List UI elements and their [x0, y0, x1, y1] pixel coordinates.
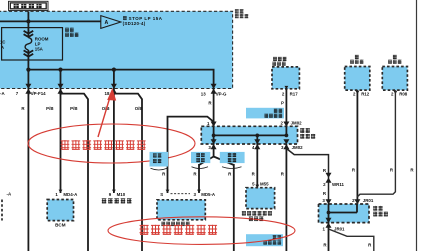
wire drop to connector I/P-F	[60, 70, 62, 95]
label: 2 JR01 (top)	[352, 198, 374, 203]
label P/B branch	[70, 106, 77, 111]
svg-text:BCM: BCM	[55, 223, 66, 228]
pin arrow M55	[255, 185, 259, 188]
wire P from radio to JM02	[285, 89, 287, 127]
label: 2 R08	[391, 92, 408, 97]
label: cut-off text at left edge	[0, 40, 5, 51]
svg-text:P/B: P/B	[46, 106, 53, 111]
label: 3 (JR01 top)	[322, 198, 325, 203]
label: 5 M55	[252, 182, 269, 187]
connector arrows JM02 bottom pin4	[254, 139, 260, 149]
junction dot lower bus at fuse	[26, 68, 30, 72]
label: 2 R17	[282, 91, 298, 96]
brace under auto A/C tag 2	[192, 167, 209, 169]
wire R from JM02 pin3r to bottom	[285, 144, 287, 251]
svg-text:I/P-G: I/P-G	[216, 91, 227, 96]
cut-off module at left edge	[2, 192, 12, 221]
label R (JR01 branch)	[368, 242, 372, 247]
connector arrows JR01 pin3	[326, 199, 332, 209]
label: 18	[105, 91, 110, 96]
wire: feed from top edge	[27, 11, 29, 31]
label O/B branch	[135, 106, 143, 111]
connector arrows JM02 top pin1	[211, 122, 217, 132]
wire branch to WR11/JR01	[286, 149, 328, 205]
label: harness connector (right of JM02)	[300, 128, 315, 138]
label: 13 I/P-G	[201, 91, 227, 96]
wire O/B to diagnostic connector M10	[113, 93, 115, 193]
wire R from left vanity lamp to JR01	[356, 90, 358, 204]
label: 1 (JM02 top)	[207, 121, 210, 126]
label: 2 JM02 (top)	[281, 121, 303, 126]
shorting connector JR01 box	[319, 204, 370, 223]
wire branch to A/C control pin S	[168, 117, 214, 193]
JM02 bus dot 3	[285, 134, 289, 138]
wire drop to connector 18	[113, 70, 115, 95]
label R (manual A/C wire)	[228, 171, 232, 176]
right vanity lamp box R08	[382, 67, 407, 91]
label: 9 M10	[109, 192, 126, 197]
svg-text:P: P	[281, 101, 284, 106]
svg-text:S: S	[160, 192, 163, 197]
svg-text:P/B: P/B	[70, 106, 77, 111]
svg-text:JR01: JR01	[334, 226, 345, 231]
label: to STOP LP 15A (SD120-4)	[123, 16, 163, 26]
svg-text:I/P-F14: I/P-F14	[31, 91, 46, 96]
label: I/P-F14	[31, 91, 46, 96]
label: left vanity lamp	[350, 55, 363, 64]
red text: disconnect here test lamp goes out	[61, 140, 146, 149]
wire R from I/P-A 7 to bottom	[27, 93, 29, 251]
parking warning buzzer box M55	[246, 188, 275, 209]
wire R manual A/C to bottom	[233, 164, 235, 251]
label R (edge wire)	[410, 167, 414, 172]
connector I/P-F pin 14	[58, 84, 64, 94]
pin arrow R08	[394, 91, 398, 94]
wire R to MD5-A pin 3	[198, 164, 200, 193]
label R (JR01 down)	[323, 242, 327, 247]
label P wire8	[281, 101, 284, 106]
label: parking distance warning buzzer	[242, 211, 272, 221]
JM02 bus dot 1	[212, 134, 216, 138]
svg-text:JR01: JR01	[363, 198, 374, 203]
label O/B wire4	[102, 106, 110, 111]
tag: manual A/C	[220, 152, 245, 163]
junction dot on upper bus	[26, 19, 30, 23]
JM02 bus dot 2	[255, 134, 259, 138]
label: shorting connector	[373, 206, 388, 216]
connector I/P-G pin 13	[211, 84, 217, 94]
label: right vanity lamp	[388, 55, 401, 64]
pin arrow R12	[356, 91, 360, 94]
connector arrows JR01 pin2	[354, 199, 360, 209]
label: radio receiver	[272, 57, 286, 66]
tag: auto A/C (on MD5 wire)	[191, 152, 210, 163]
red ellipse: disconnect here test lamp goes out	[28, 124, 195, 163]
tag: without smart key	[246, 234, 283, 246]
label: interior junction box name (top-right)	[235, 9, 248, 18]
label: diagnostic connector	[102, 198, 132, 203]
connector I/P-A pin 7	[25, 84, 31, 94]
wire drop to connector I/P-A	[27, 70, 29, 95]
constant power label box	[9, 1, 49, 10]
wire R at right edge	[416, 0, 418, 251]
label R wire1	[21, 106, 25, 111]
red ellipse: instrument internal self-discharge	[108, 217, 295, 245]
svg-text:R08: R08	[399, 92, 408, 97]
wire P/B from I/P-F 14 to BCM	[60, 93, 62, 193]
connector arrows JM02 top pin2	[283, 122, 289, 132]
bus wire (lower) with corner to I/P-G	[28, 70, 213, 93]
junction dot lower bus 2	[58, 68, 62, 72]
JR01 bus dot	[327, 211, 331, 215]
joint connector JM02 box	[201, 126, 297, 144]
junction dot lower bus 3	[112, 68, 116, 72]
svg-text:MD5-A: MD5-A	[201, 192, 216, 197]
svg-text:JM02: JM02	[291, 121, 303, 126]
label R (MD5 wire)	[193, 171, 197, 176]
inline connector WR11	[326, 173, 332, 183]
JM02 internal bus	[214, 126, 287, 144]
svg-text:R12: R12	[361, 92, 370, 97]
fuse ROOM LP 15A	[24, 30, 34, 70]
label P/B wire2	[46, 106, 53, 111]
svg-text:A: A	[105, 20, 109, 26]
svg-text:JM02: JM02	[292, 145, 304, 150]
label R (R12 wire)	[352, 167, 356, 172]
BCM box	[47, 200, 73, 221]
svg-text:M10: M10	[117, 192, 126, 197]
svg-text:M55: M55	[260, 182, 269, 187]
pin arrow MD5-A S	[166, 190, 170, 193]
label: 3 (JM02 bottom left)	[208, 145, 211, 150]
connector pin 18	[111, 84, 117, 94]
wire R from right vanity lamp bending to JR01	[357, 90, 395, 197]
label R (M55 wire)	[252, 171, 256, 176]
label R below WR11	[323, 191, 327, 196]
svg-text:R17: R17	[290, 91, 299, 96]
label: 2 WR11	[323, 182, 344, 187]
pin arrow MD4-A	[59, 190, 63, 193]
label: 2 R12	[353, 92, 370, 97]
connector arrows JR01 pin1 bottom	[326, 218, 332, 228]
label R wire7	[208, 101, 212, 106]
wire P/B branch to bottom	[61, 94, 89, 251]
power connector box	[2, 28, 63, 60]
radio receiver box R17	[272, 67, 299, 89]
red text: instrument internal self-discharge	[140, 225, 218, 235]
brace under auto A/C tag 1	[151, 168, 168, 170]
label: -A 7	[0, 91, 19, 96]
tag: with smart key	[246, 108, 284, 119]
interior junction box (blue region)	[0, 11, 233, 88]
bus wire B+ (upper)	[0, 20, 101, 22]
wire R from JR01 pin1 to bottom	[328, 223, 330, 251]
svg-text:(SD120-4): (SD120-4)	[123, 21, 146, 26]
red arrow pointing at connector 18	[98, 88, 116, 137]
label: 3 JM02 (bottom right)	[281, 145, 303, 150]
connector arrows JM02 bottom pin3	[211, 139, 217, 149]
label R (smart-key wire)	[281, 171, 285, 176]
wire O/B branch to bottom	[114, 94, 142, 251]
label: 1 JR01 (bottom)	[323, 226, 346, 231]
label: power connector	[65, 28, 78, 37]
connector arrows JM02 bottom pin3r	[283, 139, 289, 149]
svg-text:O/B: O/B	[135, 106, 143, 111]
svg-text:WR11: WR11	[332, 182, 345, 187]
arrow A: to STOP LP fuse	[101, 16, 121, 29]
svg-text:18: 18	[105, 91, 110, 96]
brace under manual A/C tag	[222, 167, 242, 169]
pin arrow MD5-A 3	[197, 190, 201, 193]
svg-text:MD4-A: MD4-A	[63, 192, 78, 197]
svg-text:13: 13	[201, 91, 206, 96]
wire R from JM02 pin4 to M55	[256, 144, 258, 188]
label: ROOM LP 15A	[35, 37, 49, 52]
pin arrow radio R17	[285, 86, 289, 89]
label R above WR11	[323, 168, 327, 173]
tag: auto A/C (on S wire)	[150, 152, 169, 167]
wire R from I/P-G 13 to JM02	[213, 93, 215, 127]
label: 4 (JM02 bottom mid)	[252, 145, 255, 150]
wire fork from JM02 pin3	[199, 144, 234, 165]
label: S ... 3 MD5-A	[160, 192, 216, 197]
label: 1 MD4-A	[55, 192, 78, 197]
svg-text:1C: 1C	[0, 40, 5, 45]
label R (R08 wire)	[390, 167, 394, 172]
label R (S wire)	[162, 171, 166, 176]
label: A/C control module	[161, 222, 189, 226]
wire R branch from JR01 to bottom right	[329, 229, 374, 251]
left vanity lamp box R12	[345, 67, 370, 91]
svg-text:A: A	[1, 45, 4, 50]
pin arrow M10	[112, 190, 116, 193]
svg-text:15A: 15A	[35, 47, 44, 52]
JR01 internal wires	[329, 204, 358, 223]
label: BCM	[55, 223, 66, 228]
A/C control module box	[157, 200, 205, 220]
